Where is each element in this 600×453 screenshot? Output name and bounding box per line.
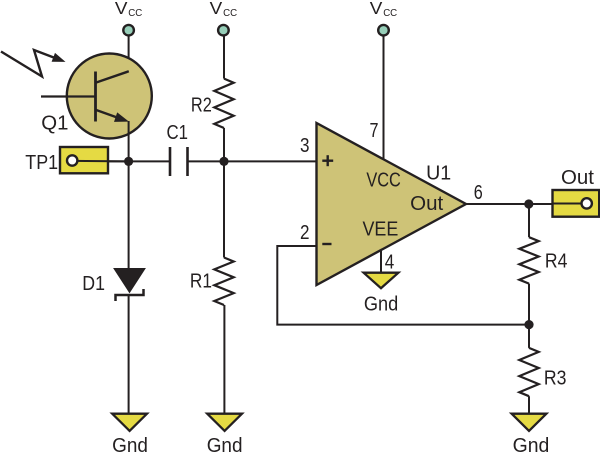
wire: C1 to opamp pin 3 [188, 160, 317, 162]
wire: node to R4 [528, 204, 530, 237]
node: R2 / R1 / C1 junction [219, 157, 228, 166]
wire: opamp output to Out terminal [466, 203, 554, 205]
Q1 base lead [41, 95, 96, 97]
svg-text:7: 7 [370, 119, 379, 142]
wire: main input net TP1 / Q1 emitter / C1 [78, 160, 170, 162]
resistor R1 [214, 258, 233, 306]
svg-text:CC: CC [383, 7, 397, 19]
wire: Vcc to Q1 collector [128, 36, 130, 73]
light arrow into Q1 [1, 50, 57, 77]
svg-text:6: 6 [474, 181, 483, 204]
ground symbol (R3) [512, 414, 547, 431]
capacitor C1 [169, 147, 172, 176]
opamp - input mark [322, 243, 331, 245]
svg-text:Out: Out [561, 166, 594, 189]
svg-text:Out: Out [410, 192, 443, 215]
wire: R2 to node [223, 128, 225, 161]
node: feedback divider junction [524, 320, 533, 329]
node: Q1 emitter / TP1 / C1 / D1 junction [124, 157, 133, 166]
op-amp U1 [317, 123, 467, 285]
svg-text:Gnd: Gnd [112, 434, 148, 453]
TP1 pad circle [67, 155, 77, 165]
svg-text:TP1: TP1 [25, 151, 58, 174]
wire: R1 to ground [223, 305, 225, 414]
svg-text:V: V [115, 0, 128, 18]
svg-text:V: V [210, 0, 223, 18]
svg-text:Gnd: Gnd [364, 293, 398, 316]
svg-text:CC: CC [128, 7, 142, 19]
svg-text:R3: R3 [544, 367, 567, 390]
resistor R2 [214, 79, 233, 128]
wire: Vcc to R2 [223, 36, 225, 79]
wire: D1 to ground [128, 295, 130, 414]
svg-text:2: 2 [300, 221, 310, 244]
wire: R4 to feedback node [528, 284, 530, 325]
ground symbol (R1) [207, 414, 242, 431]
node: output junction [524, 199, 533, 208]
svg-text:VCC: VCC [366, 168, 401, 191]
ground symbol (pin 4) [364, 273, 399, 289]
svg-text:V: V [370, 0, 383, 18]
svg-text:Q1: Q1 [41, 112, 68, 135]
wire: node to R1 [223, 161, 225, 257]
test point TP1 box [60, 147, 108, 173]
svg-text:R2: R2 [191, 93, 212, 116]
wire: Q1 emitter down to node [128, 121, 130, 161]
svg-text:R1: R1 [190, 269, 212, 292]
Q1 emitter lead with arrow [96, 110, 122, 119]
resistor R3 [519, 348, 538, 396]
wire: node to R3 [528, 325, 530, 348]
Out pad circle [582, 198, 592, 208]
resistor R4 [519, 237, 538, 283]
Out terminal box [553, 190, 600, 217]
svg-text:C1: C1 [167, 121, 189, 144]
wire: R3 to ground [528, 396, 530, 414]
svg-text:3: 3 [300, 134, 310, 157]
wire: into Out pad [553, 203, 587, 205]
svg-text:R4: R4 [545, 250, 568, 273]
wire: pin 4 to ground [380, 251, 382, 273]
svg-text:VEE: VEE [363, 217, 399, 240]
wire: TP1 pad to node [72, 160, 129, 163]
svg-text:U1: U1 [426, 162, 451, 185]
svg-text:Gnd: Gnd [207, 434, 243, 453]
opamp + input mark [322, 159, 333, 161]
svg-text:CC: CC [223, 7, 237, 19]
svg-text:Gnd: Gnd [513, 434, 550, 453]
ground symbol (D1) [112, 414, 147, 431]
wire: Vcc to opamp pin 7 [383, 36, 385, 161]
Q1 base bar [94, 72, 97, 122]
zener diode D1 [128, 161, 130, 270]
Q1 collector lead [96, 71, 129, 82]
phototransistor Q1 body [67, 54, 152, 139]
wire: pin 2 feedback left segment [277, 246, 529, 325]
svg-text:D1: D1 [82, 272, 105, 295]
svg-text:4: 4 [385, 250, 395, 273]
